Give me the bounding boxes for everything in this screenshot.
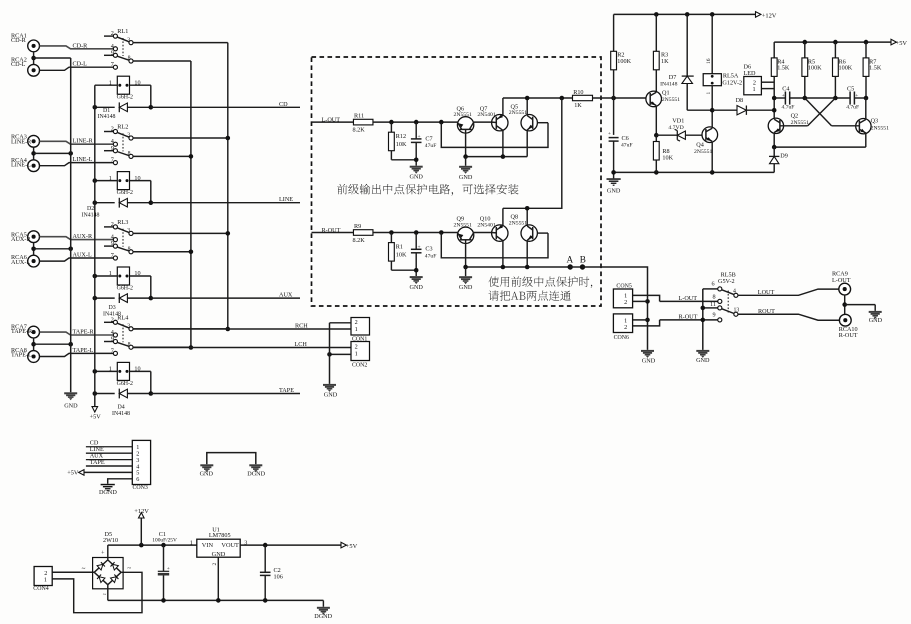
wire Q10 collector down	[502, 241, 504, 267]
transistor Q8 2N5551	[509, 214, 548, 242]
svg-text:1.5K: 1.5K	[869, 65, 882, 72]
svg-text:Q2: Q2	[791, 112, 799, 119]
ground symbol DGND tie	[247, 464, 265, 477]
wire L-OUT input	[312, 117, 354, 124]
wire R10 to Q1 base	[593, 96, 648, 101]
wire LINE-R to relay pin 4	[40, 138, 114, 145]
svg-text:RL3: RL3	[117, 219, 128, 226]
wire Q5 collector up	[526, 98, 528, 116]
wire AUX-R to relay pin 4	[40, 233, 114, 240]
svg-text:B: B	[580, 255, 586, 265]
wire CON1 pin 2 to ground	[330, 322, 352, 324]
junction +5V rail / coil RL3	[93, 274, 98, 279]
RCA connector RCA5	[11, 231, 40, 243]
diode D2 IN4148	[82, 198, 154, 219]
transistor Q7 2N5401	[477, 105, 508, 131]
svg-text:100K: 100K	[839, 65, 853, 72]
svg-text:G6H-2: G6H-2	[117, 95, 133, 101]
svg-text:TAPE: TAPE	[90, 459, 105, 466]
svg-text:LINE-R: LINE-R	[11, 138, 32, 145]
svg-text:106: 106	[274, 573, 283, 580]
svg-text:IN4148: IN4148	[82, 213, 100, 219]
wire Q7 collector down	[502, 130, 504, 156]
svg-text:IN4148: IN4148	[112, 411, 130, 417]
LED D6	[744, 63, 775, 94]
+5V relay supply rail	[94, 85, 96, 406]
svg-text:1: 1	[753, 86, 756, 93]
svg-text:G5V-2: G5V-2	[718, 278, 735, 285]
svg-text:GND: GND	[212, 551, 226, 558]
resistor R9 8.2K	[353, 223, 373, 244]
svg-text:R-OUT: R-OUT	[679, 314, 698, 321]
svg-text:AUX-L: AUX-L	[11, 259, 30, 266]
wire DC+ line	[108, 539, 197, 547]
svg-text:11: 11	[710, 301, 716, 308]
wire DC- line	[108, 598, 324, 603]
ground stem below Q6	[465, 157, 467, 166]
svg-text:1: 1	[109, 79, 112, 86]
wire CON4 pin 1 AC loop	[52, 572, 142, 612]
svg-text:47uF: 47uF	[621, 142, 633, 148]
svg-text:8.2K: 8.2K	[353, 237, 366, 244]
svg-text:LINE-L: LINE-L	[73, 156, 93, 163]
ground wire CON1/CON2	[329, 323, 331, 384]
svg-text:1: 1	[190, 539, 193, 546]
wire bistable emitter line	[772, 145, 866, 150]
svg-text:RL4: RL4	[117, 314, 128, 321]
svg-text:10: 10	[134, 175, 140, 182]
svg-text:1: 1	[355, 326, 358, 333]
svg-text:D7: D7	[669, 74, 677, 81]
svg-text:CON3: CON3	[133, 485, 148, 491]
transistor Q9 2N5551	[454, 216, 474, 267]
svg-text:16: 16	[706, 58, 712, 64]
svg-text:10: 10	[134, 366, 140, 373]
svg-text:47uF: 47uF	[425, 143, 437, 149]
connector CON4	[33, 567, 52, 593]
transistor Q6 2N5551	[454, 105, 474, 156]
ground junction of RCA7/RCA8	[31, 338, 73, 351]
svg-text:VOUT: VOUT	[221, 542, 239, 549]
relay RL5B G5V-2 contacts	[703, 271, 740, 322]
svg-text:2: 2	[111, 126, 114, 133]
svg-text:1: 1	[109, 175, 112, 182]
node relay drive	[710, 108, 715, 113]
svg-text:L-OUT: L-OUT	[322, 117, 341, 124]
relay RL2 coil	[95, 172, 151, 203]
svg-text:A: A	[566, 255, 573, 265]
resistor R1 10K	[389, 233, 417, 271]
transistor Q5 2N5551	[509, 103, 548, 131]
RCA connector RCA8	[11, 347, 40, 363]
svg-text:+12V: +12V	[134, 508, 149, 515]
svg-text:10: 10	[134, 270, 140, 277]
wire GND-DGND tie	[207, 453, 256, 465]
text caption protection circuit	[337, 184, 519, 196]
svg-text:GND: GND	[324, 391, 338, 398]
svg-text:1.5K: 1.5K	[777, 65, 790, 72]
junction B line to CON5 column	[645, 299, 650, 304]
wire L-OUT node	[373, 120, 458, 125]
svg-text:2: 2	[624, 324, 627, 331]
svg-text:IN4148: IN4148	[98, 114, 116, 120]
svg-text:9: 9	[713, 312, 716, 319]
svg-text:1K: 1K	[661, 58, 669, 65]
svg-text:R10: R10	[573, 89, 583, 96]
svg-text:2N5551: 2N5551	[509, 221, 527, 227]
svg-text:1: 1	[109, 270, 112, 277]
node D8 output	[772, 108, 777, 113]
relay RL4 coil	[95, 362, 151, 393]
capacitor C3 47uF	[411, 233, 436, 277]
svg-text:9: 9	[111, 145, 114, 152]
wire +5V output line	[240, 540, 341, 548]
ground symbol below C7	[409, 166, 423, 181]
wire R-OUT to relay pin 9	[660, 314, 718, 321]
svg-text:TAPE-R: TAPE-R	[73, 329, 95, 336]
svg-text:8: 8	[713, 293, 716, 300]
wire CON6 pin 2	[633, 320, 660, 326]
diode D3 IN4148	[93, 293, 154, 317]
svg-text:GND: GND	[409, 284, 423, 291]
svg-text:C7: C7	[425, 135, 432, 142]
svg-text:CON6: CON6	[614, 335, 629, 341]
svg-text:6: 6	[136, 476, 139, 483]
svg-text:1K: 1K	[574, 102, 582, 109]
wire relay RL1 pin 3 output	[133, 42, 228, 44]
svg-text:R1: R1	[396, 244, 403, 251]
wire input wrap to Q5 base	[441, 122, 548, 147]
ground symbol GND tie	[200, 464, 214, 477]
svg-text:GND: GND	[459, 284, 473, 291]
svg-text:D8: D8	[736, 97, 744, 104]
wire ROUT to RCA10	[738, 308, 840, 320]
wire RCA9/RCA10 shield ground	[842, 295, 875, 314]
svg-text:2N5551: 2N5551	[791, 120, 809, 126]
capacitor C7 47uF	[411, 122, 436, 166]
wire emitter line	[463, 265, 527, 270]
wire R-OUT node	[373, 230, 458, 235]
bridge rectifier D5 2W10	[93, 531, 132, 600]
ground symbol DGND CON3	[99, 484, 117, 496]
svg-text:10K: 10K	[396, 251, 407, 258]
ground junction of RCA3/RCA4	[31, 147, 73, 160]
svg-text:2N5551: 2N5551	[871, 125, 889, 131]
svg-text:8.2K: 8.2K	[353, 127, 366, 134]
+5V arrow power out	[341, 542, 358, 550]
transistor Q2 2N5551	[768, 112, 809, 147]
svg-text:+: +	[855, 93, 858, 99]
RCA connector RCA10 R-OUT	[839, 314, 858, 339]
wire cross-couple R5 to Q3 base	[805, 98, 832, 126]
svg-text:VIN: VIN	[202, 542, 214, 549]
svg-text:1: 1	[109, 366, 112, 373]
svg-text:CON2: CON2	[352, 362, 367, 368]
svg-text:D4: D4	[118, 405, 125, 411]
svg-text:TAPE-L: TAPE-L	[73, 347, 94, 354]
svg-text:G6H-2: G6H-2	[117, 286, 133, 292]
svg-text:2N5551: 2N5551	[662, 97, 680, 103]
svg-text:L-OUT: L-OUT	[679, 295, 698, 302]
ground symbol relay RL5B	[696, 350, 710, 364]
svg-text:+: +	[167, 566, 170, 572]
svg-text:+5V: +5V	[67, 470, 79, 477]
svg-text:VD1: VD1	[672, 118, 684, 125]
net wire TAPE	[151, 387, 300, 394]
wire CD-R to relay pin 4	[40, 42, 114, 49]
svg-text:C3: C3	[425, 246, 432, 253]
diode D7 IN4148	[660, 14, 712, 110]
node Q1 emitter	[654, 133, 659, 138]
svg-text:10: 10	[134, 79, 140, 86]
svg-text:TAPE-R: TAPE-R	[11, 328, 33, 335]
svg-text:8: 8	[128, 151, 131, 157]
wire relay RL3 pin 8 output	[133, 251, 191, 253]
wire relay ground column	[701, 289, 706, 350]
RCA connector RCA7	[11, 324, 40, 339]
svg-text:R9: R9	[354, 223, 361, 230]
RCA connector RCA1	[11, 32, 40, 52]
svg-text:TAPE-L: TAPE-L	[11, 351, 32, 358]
svg-text:GND: GND	[459, 174, 473, 181]
capacitor C2 106	[260, 545, 283, 600]
svg-text:R12: R12	[396, 133, 406, 140]
diode D9	[769, 147, 788, 172]
wire LCH	[133, 341, 351, 348]
capacitor C4 4.7uF	[782, 85, 795, 110]
RCA connector RCA6	[11, 254, 40, 267]
svg-text:D3: D3	[109, 305, 116, 311]
svg-text:2N5551: 2N5551	[509, 110, 527, 116]
svg-text:CD-L: CD-L	[11, 61, 26, 68]
svg-text:AUX: AUX	[279, 292, 293, 299]
svg-text:3: 3	[127, 133, 130, 139]
svg-text:6: 6	[712, 281, 715, 288]
regulator U1 LM7805	[197, 527, 240, 558]
RCA shield ground rail	[70, 58, 72, 392]
transistor Q3 2N5551	[832, 98, 890, 147]
svg-text:2: 2	[624, 299, 627, 306]
svg-text:GND: GND	[607, 188, 621, 195]
wire Q6 to Q7	[474, 121, 492, 123]
wire cross-couple R6 to Q2 base	[808, 98, 836, 126]
ground symbol CON1/CON2	[323, 384, 338, 399]
connector CON1	[351, 318, 370, 343]
wire LOUT to RCA9	[738, 289, 839, 296]
ground symbol CON5 column	[641, 350, 656, 364]
lower rail junction	[525, 206, 530, 211]
svg-text:3: 3	[244, 540, 247, 547]
diode D8	[712, 97, 774, 115]
wire upper output rail	[503, 96, 573, 101]
svg-text:2N5551: 2N5551	[454, 112, 472, 118]
capacitor C5 4.7uF	[846, 85, 859, 110]
RCA connector RCA4	[11, 157, 40, 172]
node B	[570, 255, 586, 270]
svg-text:G12V-2: G12V-2	[722, 79, 742, 86]
svg-text:9: 9	[111, 49, 114, 56]
svg-text:D9: D9	[780, 153, 788, 160]
junction +5V rail / coil RL2	[93, 178, 98, 183]
wire emitter line to point A	[525, 265, 570, 270]
wire TAPE-L to relay pin 7	[40, 347, 114, 357]
svg-text:2N5401: 2N5401	[477, 222, 495, 228]
svg-text:GND: GND	[696, 357, 710, 364]
connector CON5	[613, 284, 632, 308]
svg-text:C6: C6	[622, 135, 629, 142]
ground junction of RCA1/RCA2	[31, 52, 70, 65]
ground symbol main	[607, 170, 621, 195]
svg-text:9: 9	[111, 336, 114, 343]
+12V arrow power	[134, 508, 149, 545]
svg-text:4.7uF: 4.7uF	[846, 105, 859, 111]
svg-text:D2: D2	[87, 206, 94, 212]
relay RL3 switch contacts	[104, 219, 133, 260]
svg-text:GND: GND	[200, 471, 214, 478]
wire Q7 top rail	[502, 98, 504, 115]
resistor R5 100K	[802, 42, 822, 98]
svg-text:+5V: +5V	[896, 40, 908, 47]
+12V arrow label	[756, 12, 777, 20]
svg-text:AUX-L: AUX-L	[73, 252, 92, 259]
resistor R2 100K	[611, 14, 632, 134]
resistor R8 10K	[653, 135, 673, 172]
+12V power rail	[614, 12, 756, 17]
net wire CD	[151, 101, 300, 108]
capacitor C1 100uF/25V	[152, 531, 177, 600]
wire CD-L to relay pin 7	[40, 61, 114, 71]
wire bistable top line	[772, 96, 868, 101]
junction +5V rail / coil RL4	[93, 369, 98, 374]
relay RL3 coil	[95, 267, 151, 298]
ground symbol left rail	[64, 392, 78, 409]
RCA connector RCA3	[11, 134, 40, 148]
wire CON3 pin 3 net AUX	[86, 452, 132, 459]
svg-text:7: 7	[111, 252, 114, 259]
svg-text:100uF/25V: 100uF/25V	[152, 538, 177, 544]
ground symbol below Q6	[459, 166, 473, 181]
wire CON5 pin 1	[633, 295, 660, 301]
svg-text:7: 7	[111, 157, 114, 164]
svg-text:2N5551: 2N5551	[454, 222, 472, 228]
wire relay RL2 pin 3 output	[133, 137, 228, 139]
relay RL4 switch contacts	[104, 314, 133, 355]
wire RCH	[133, 323, 351, 330]
resistor R4 1.5K	[771, 42, 790, 118]
wire LINE-L to relay pin 7	[40, 156, 114, 166]
wire TAPE-R to relay pin 4	[40, 329, 114, 336]
svg-text:8: 8	[128, 246, 131, 252]
wire emitter line	[463, 154, 527, 159]
svg-text:1: 1	[355, 350, 358, 357]
svg-text:GND: GND	[642, 357, 656, 364]
relay RL1 switch contacts	[104, 28, 133, 69]
svg-text:TAPE: TAPE	[279, 387, 294, 394]
svg-text:10K: 10K	[396, 141, 407, 148]
svg-text:L-OUT: L-OUT	[832, 277, 851, 284]
svg-text:IN4148: IN4148	[660, 81, 678, 87]
svg-text:ROUT: ROUT	[758, 308, 775, 315]
svg-text:LM7805: LM7805	[209, 532, 231, 539]
wire emitter ground line	[614, 170, 775, 175]
ground stem below Q9	[465, 267, 467, 276]
wire CON6 pin 1	[633, 319, 648, 321]
svg-text:2: 2	[212, 563, 218, 566]
wire B to CON5 column	[583, 267, 648, 350]
svg-text:R11: R11	[354, 113, 364, 120]
wire relay RL2 pin 8 output	[133, 155, 191, 157]
wire CON3 pin 6 to DGND	[108, 479, 133, 484]
wire Q10 top rail	[502, 208, 504, 226]
diode D4 IN4148	[93, 389, 154, 417]
transistor Q1 2N5551	[646, 90, 680, 136]
svg-text:2W10: 2W10	[103, 537, 118, 544]
wire relay RL4 pin 8 output	[133, 346, 191, 348]
svg-text:LED: LED	[744, 70, 757, 77]
wire CON5 pin 2	[633, 300, 648, 302]
svg-text:+: +	[782, 93, 785, 99]
svg-text:7: 7	[111, 347, 114, 354]
net wire LINE	[151, 196, 300, 203]
wire relay RL4 pin 3 output	[133, 328, 228, 330]
resistor R6 100K	[833, 42, 853, 98]
svg-text:1: 1	[706, 92, 712, 95]
svg-text:10K: 10K	[662, 155, 673, 162]
svg-text:GND: GND	[409, 173, 423, 180]
svg-text:100K: 100K	[808, 65, 822, 72]
svg-text:+: +	[417, 244, 420, 250]
resistor R12 10K	[389, 122, 417, 160]
wire relay RL1 pin 8 output	[133, 60, 191, 62]
transistor Q10 2N5401	[477, 216, 508, 242]
svg-text:AUX-R: AUX-R	[11, 236, 31, 243]
wire output-tie vertical	[503, 98, 562, 208]
svg-text:DGND: DGND	[247, 471, 265, 478]
svg-text:Q3: Q3	[871, 118, 879, 125]
resistor R10 1K	[573, 89, 593, 109]
svg-text:DGND: DGND	[314, 613, 332, 620]
svg-text:GND: GND	[869, 317, 883, 324]
wire L-OUT to relay pin 8	[660, 295, 718, 302]
svg-text:2N5401: 2N5401	[477, 112, 495, 118]
wire relay RL3 pin 3 output	[133, 232, 228, 234]
svg-text:8: 8	[128, 342, 131, 348]
svg-text:+: +	[417, 134, 420, 140]
svg-text:Q4: Q4	[696, 142, 704, 149]
RCA connector RCA9 L-OUT	[832, 270, 851, 295]
svg-text:C4: C4	[782, 85, 789, 92]
wire CON3 pin 2 net LINE	[86, 446, 132, 453]
dashed protection circuit box	[312, 57, 602, 306]
svg-text:G6H-2: G6H-2	[117, 381, 133, 387]
text caption AB jumper line1	[489, 276, 593, 288]
svg-text:4: 4	[733, 288, 736, 294]
wire CON3 pin 5 +5V	[67, 470, 132, 477]
svg-text:100K: 100K	[617, 58, 631, 65]
svg-text:C5: C5	[847, 85, 854, 92]
svg-text:RCH: RCH	[295, 323, 308, 330]
transistor Q4 2N5551	[694, 110, 718, 172]
svg-text:Q1: Q1	[662, 90, 670, 97]
svg-text:LINE-R: LINE-R	[73, 138, 94, 145]
zener VD1 4.7VD	[656, 118, 702, 142]
svg-text:CD: CD	[279, 101, 288, 108]
svg-text:G6H-2: G6H-2	[117, 190, 133, 196]
svg-text:LOUT: LOUT	[758, 289, 775, 296]
svg-text:LINE: LINE	[279, 196, 293, 203]
svg-text:GND: GND	[64, 403, 78, 410]
svg-text:DGND: DGND	[99, 489, 117, 496]
